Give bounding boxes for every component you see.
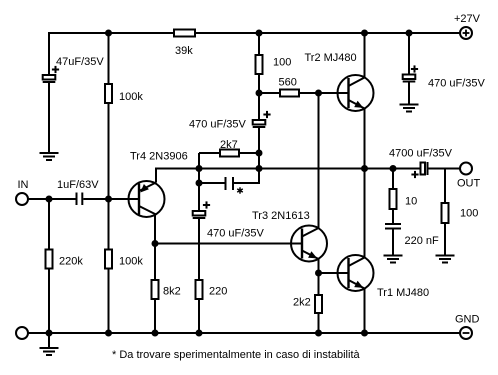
label OUT bbox=[457, 178, 481, 190]
capacitor 470uF/35V emitter bbox=[193, 201, 210, 218]
transistor Tr1 MJ480 (NPN) bbox=[338, 255, 374, 291]
wire 470uF right cap to ground bbox=[408, 82, 410, 104]
wire node to 2k2 bbox=[318, 273, 320, 295]
junction Tr3 emitter node bbox=[315, 270, 322, 277]
label 39k bbox=[175, 45, 193, 57]
svg-text:470 uF/35V: 470 uF/35V bbox=[428, 78, 486, 90]
terminal OUT bbox=[460, 163, 472, 175]
label 2k7 bbox=[220, 139, 238, 151]
label Tr1 MJ480 bbox=[377, 287, 429, 299]
terminal +27V bbox=[460, 27, 472, 39]
wire 2k7 right leg bbox=[239, 152, 259, 154]
wire 8k2 to bottom rail bbox=[154, 299, 156, 333]
wire Tr3 emitter to node bbox=[318, 259, 320, 273]
wire collector node to 8k2 bbox=[154, 244, 156, 281]
transistor Tr2 MJ480 (NPN) bbox=[338, 75, 374, 111]
svg-text:Tr2 MJ480: Tr2 MJ480 bbox=[305, 52, 357, 64]
junction bottom rail / 2k2 bbox=[315, 330, 322, 337]
wire Tr4 emitter / output rail bbox=[156, 169, 421, 183]
label 100 load bbox=[460, 208, 478, 220]
capacitor 470uF/35V supply bbox=[403, 65, 418, 81]
label Tr2 MJ480 bbox=[305, 52, 357, 64]
wire top rail right segment to +27V bbox=[195, 32, 460, 34]
wire 560 to Tr2 base bbox=[299, 92, 349, 94]
wire node to star-cap left bbox=[199, 182, 225, 184]
resistor 2k7 bbox=[220, 150, 239, 157]
wire 220nF to ground bbox=[392, 230, 394, 256]
wire IN terminal to coupling cap bbox=[28, 198, 76, 200]
wire lower 100k to bottom rail bbox=[108, 269, 110, 334]
svg-text:IN: IN bbox=[18, 179, 29, 191]
junction top rail / Tr2 collector bbox=[361, 30, 368, 37]
svg-text:220 nF: 220 nF bbox=[405, 235, 440, 247]
wire Tr1 emitter to bottom rail bbox=[364, 289, 366, 334]
svg-text:OUT: OUT bbox=[457, 178, 481, 190]
junction top rail / 100k bbox=[105, 30, 112, 37]
wire out node to 100 resistor bbox=[444, 169, 446, 204]
wire 220k to bottom rail bbox=[48, 269, 50, 334]
wire 100 resistor to ground bbox=[444, 223, 446, 256]
svg-text:220k: 220k bbox=[59, 256, 83, 268]
wire output node to 10 resistor bbox=[392, 169, 394, 190]
junction Tr4 collector node bbox=[152, 240, 159, 247]
wire node to Tr1 base bbox=[319, 272, 349, 274]
junction bootstrap / 560 bbox=[256, 90, 263, 97]
wire 47uF cap to ground bbox=[48, 83, 50, 154]
svg-text:10: 10 bbox=[405, 196, 417, 208]
svg-text:Tr4 2N3906: Tr4 2N3906 bbox=[130, 151, 188, 163]
resistor 220k bbox=[46, 250, 53, 269]
wire input node to lower 100k bbox=[108, 199, 110, 250]
wire bottom rail to ground bbox=[48, 333, 50, 348]
wire 100 to bootstrap cap bbox=[258, 74, 260, 120]
junction emitter node / star cap bbox=[196, 180, 203, 187]
resistor 560 bbox=[280, 90, 299, 97]
label star bbox=[237, 187, 243, 193]
svg-text:100k: 100k bbox=[119, 91, 143, 103]
label 220 bbox=[209, 286, 227, 298]
label 470 uF/35V supply bbox=[428, 78, 486, 90]
junction bottom rail / 220k bbox=[46, 330, 53, 337]
resistor 220 bbox=[196, 280, 203, 299]
wire rail to 100k top bbox=[108, 33, 110, 84]
ground 470uF supply bbox=[400, 105, 419, 112]
label 1uF/63V bbox=[57, 179, 99, 191]
label +27V bbox=[454, 13, 481, 25]
wire 560 left leg bbox=[259, 92, 280, 94]
junction 560 / Tr3 collector bbox=[315, 90, 322, 97]
wire output cap to OUT terminal bbox=[429, 168, 461, 170]
wire emitter node column bbox=[198, 153, 200, 211]
label GND bbox=[455, 314, 480, 326]
label 220k bbox=[59, 256, 83, 268]
label 8k2 bbox=[163, 286, 181, 298]
wire Tr4 collector to Tr3 base bbox=[155, 243, 302, 245]
ground 220nF bbox=[384, 256, 403, 263]
junction 2k7 / feedback column bbox=[256, 150, 263, 157]
label IN bbox=[18, 179, 29, 191]
label Tr3 2N1613 bbox=[252, 210, 310, 222]
resistor 100k lower bbox=[105, 250, 112, 269]
junction bottom rail / 220 bbox=[196, 330, 203, 337]
terminal GND bbox=[460, 327, 472, 339]
transistor Tr4 2N3906 (PNP) bbox=[129, 181, 165, 217]
svg-text:220: 220 bbox=[209, 286, 227, 298]
label 100 bootstrap bbox=[273, 57, 291, 69]
wire bottom rail bbox=[28, 332, 460, 334]
wire rail to 100 resistor bbox=[258, 33, 260, 55]
label 100k lower bbox=[119, 256, 143, 268]
resistor 100 load bbox=[442, 203, 449, 223]
wire 100k to input node bbox=[108, 103, 110, 199]
wire 2k2 to bottom rail bbox=[318, 313, 320, 333]
junction bottom rail / Tr1 emitter bbox=[361, 330, 368, 337]
resistor 10 bbox=[390, 189, 397, 209]
svg-text:1uF/63V: 1uF/63V bbox=[57, 179, 99, 191]
junction bottom rail / 8k2 bbox=[152, 330, 159, 337]
svg-text:8k2: 8k2 bbox=[163, 286, 181, 298]
label 470 uF/35V emitter bbox=[207, 228, 265, 240]
terminal IN bbox=[16, 193, 28, 205]
svg-text:100: 100 bbox=[460, 208, 478, 220]
junction emitter node / output rail bbox=[196, 165, 203, 172]
wire Tr4 collector lead bbox=[154, 215, 156, 244]
wire input node to 220k bbox=[48, 199, 50, 250]
svg-text:Tr1 MJ480: Tr1 MJ480 bbox=[377, 287, 429, 299]
svg-text:470 uF/35V: 470 uF/35V bbox=[189, 119, 247, 131]
label 10 bbox=[405, 196, 417, 208]
junction top rail / 100 bootstrap bbox=[256, 30, 263, 37]
svg-text:560: 560 bbox=[279, 77, 297, 89]
junction input / 220k bbox=[46, 196, 53, 203]
terminal common (bottom left) bbox=[16, 327, 28, 339]
label 560 bbox=[279, 77, 297, 89]
svg-text:100: 100 bbox=[273, 57, 291, 69]
label 4700 uF/35V bbox=[389, 148, 453, 160]
capacitor 220nF bbox=[385, 224, 401, 229]
wire 220 to bottom rail bbox=[198, 299, 200, 333]
junction top rail / 470uF supply bbox=[406, 30, 413, 37]
svg-text:Tr3 2N1613: Tr3 2N1613 bbox=[252, 210, 310, 222]
transistor Tr3 2N1613 (NPN) bbox=[291, 226, 327, 262]
svg-text:39k: 39k bbox=[175, 45, 193, 57]
wire Tr2 collector to rail bbox=[364, 33, 366, 78]
svg-text:4700 uF/35V: 4700 uF/35V bbox=[389, 148, 453, 160]
svg-text:2k2: 2k2 bbox=[293, 297, 311, 309]
ground input bbox=[40, 348, 59, 355]
resistor 8k2 bbox=[152, 280, 159, 299]
wire Tr2 base node to Tr3 collector bbox=[318, 93, 320, 228]
capacitor 4700uF/35V output bbox=[411, 162, 427, 178]
svg-text:GND: GND bbox=[455, 314, 480, 326]
ground 47uF bbox=[40, 153, 59, 160]
wire coupling cap to Tr4 base bbox=[83, 198, 139, 200]
junction Tr2 emitter / output rail bbox=[361, 165, 368, 172]
svg-text:+27V: +27V bbox=[454, 13, 481, 25]
label 2k2 bbox=[293, 297, 311, 309]
junction input / 100k divider bbox=[105, 196, 112, 203]
label 220 nF bbox=[405, 235, 440, 247]
resistor 39k bbox=[174, 30, 195, 37]
wire 10 resistor to 220nF bbox=[392, 209, 394, 223]
ground 100 load bbox=[436, 256, 455, 263]
label 470 uF/35V bootstrap bbox=[189, 119, 247, 131]
wire Tr2 emitter to Tr1 collector bbox=[364, 109, 366, 258]
wire 2k7 branch left leg bbox=[199, 152, 220, 154]
svg-text:47uF/35V: 47uF/35V bbox=[56, 56, 104, 68]
resistor 100 bootstrap bbox=[256, 55, 263, 74]
svg-text:* Da trovare sperimentalmente: * Da trovare sperimentalmente in caso di… bbox=[112, 349, 361, 361]
resistor 2k2 bbox=[315, 295, 322, 313]
capacitor 1uF/63V bbox=[77, 193, 83, 206]
svg-text:100k: 100k bbox=[119, 256, 143, 268]
capacitor star (experimental) bbox=[226, 177, 234, 190]
capacitor 47uF/35V bbox=[43, 66, 59, 82]
wire star-cap right to feedback column bbox=[234, 128, 259, 183]
resistor 100k upper bbox=[105, 84, 112, 103]
wire rail to 470uF right cap bbox=[408, 33, 410, 75]
junction output rail / 10 resistor bbox=[390, 165, 397, 172]
capacitor 470uF/35V bootstrap bbox=[253, 111, 271, 127]
label footnote bbox=[112, 349, 361, 361]
junction bottom rail / 100k bbox=[105, 330, 112, 337]
svg-text:2k7: 2k7 bbox=[220, 139, 238, 151]
svg-text:470 uF/35V: 470 uF/35V bbox=[207, 228, 265, 240]
junction feedback column / output rail bbox=[256, 165, 263, 172]
label 47uF/35V bbox=[56, 56, 104, 68]
label Tr4 2N3906 bbox=[130, 151, 188, 163]
wire top rail left segment bbox=[49, 33, 174, 75]
label 100k upper bbox=[119, 91, 143, 103]
wire 470uF to 220 resistor bbox=[198, 219, 200, 280]
